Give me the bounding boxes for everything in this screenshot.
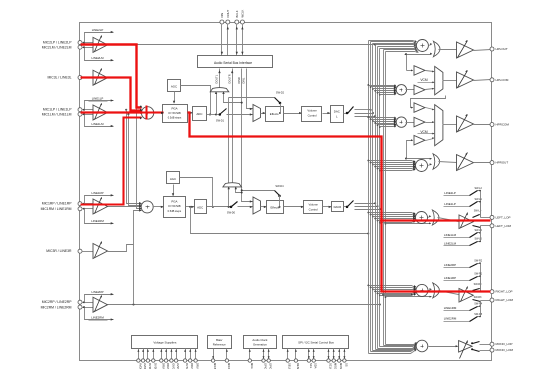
wire AGC-L sense [181, 86, 211, 115]
wire AGC-R sense [180, 178, 213, 207]
net DINL [247, 69, 253, 109]
svg-text:SW-L2: SW-L2 [474, 187, 482, 190]
svg-text:SW-L5: SW-L5 [474, 238, 482, 241]
bus taps to LEFT_LO mixer [367, 212, 369, 214]
pin LEFT_LOP [490, 215, 494, 219]
switch SW-L0 [473, 215, 480, 218]
svg-text:LINE2LP: LINE2LP [92, 28, 104, 32]
svg-text:SW-D1: SW-D1 [216, 118, 225, 122]
pin MICDET [225, 359, 228, 362]
wire PGA-R to ADC-R [186, 206, 195, 208]
combiner RIGHT_LO [433, 283, 440, 298]
wire bus tap to RIGHT_LO combiner [385, 296, 387, 298]
svg-text:SW-R1: SW-R1 [474, 272, 482, 275]
amp HPROUT [457, 155, 474, 171]
wire ADC-R tap to ADC mux R [228, 98, 230, 207]
wire bus tap to LEFT_LO combiner [385, 223, 387, 225]
tap LINE1RP [85, 196, 114, 204]
switch SW-R0 [473, 289, 480, 291]
svg-text:RESET: RESET [296, 363, 300, 369]
wire Effects-VC R [284, 206, 304, 208]
collector LEFT to pins [481, 217, 491, 219]
tap LINE1RM [85, 209, 114, 224]
block Volume Control R [304, 201, 323, 214]
block Volume Control L [302, 107, 322, 122]
svg-text:DINR: DINR [237, 77, 241, 83]
svg-text:Volume: Volume [307, 108, 317, 112]
amp HPLOUT [457, 42, 474, 58]
switch MONO P [473, 342, 480, 344]
mux DAC-in R [253, 197, 261, 214]
Audio Serial Bus Interface U1 [198, 56, 273, 68]
pin WCLK [240, 20, 244, 24]
wire MIC1L inputs [82, 109, 94, 111]
svg-text:WCLK: WCLK [241, 10, 245, 18]
svg-text:SW-D2: SW-D2 [276, 91, 285, 95]
collector RIGHT to pins [481, 291, 491, 293]
svg-text:SW-L4: SW-L4 [474, 229, 482, 232]
wire MIC1R inputs [82, 203, 94, 205]
svg-text:LINE2RP: LINE2RP [444, 263, 456, 267]
svg-text:SW-R3: SW-R3 [474, 296, 482, 299]
svg-text:LINE1RP: LINE1RP [91, 191, 103, 195]
svg-text:DIN: DIN [220, 13, 224, 18]
pin MIC3L/LINE3L [78, 76, 82, 80]
pin AVDD [141, 359, 144, 362]
svg-text:LINE1LP: LINE1LP [92, 96, 104, 100]
pin MIC1RM/LINE1RM [78, 207, 82, 211]
chip outer border [80, 23, 492, 361]
wire MIC1R amp output [108, 206, 142, 208]
wire VC-DACR [323, 206, 332, 208]
svg-text:DAC: DAC [334, 110, 340, 114]
svg-text:Voltage Supplies: Voltage Supplies [153, 340, 177, 344]
svg-text:DOUTR: DOUTR [227, 74, 231, 83]
red path MIC2L input [81, 45, 142, 108]
wire AGC-L control [174, 92, 176, 103]
pin HPLCOM [490, 78, 494, 82]
tap LINE1LP [85, 101, 114, 110]
wire mux to amp HPLCOM [443, 80, 457, 82]
tap LINE2RM [85, 308, 114, 320]
svg-text:DOUT: DOUT [226, 10, 230, 18]
pin SCL [307, 359, 310, 362]
svg-text:DRVDD2: DRVDD2 [166, 363, 170, 369]
svg-text:BCLK: BCLK [235, 10, 239, 17]
svg-text:Audio Clock: Audio Clock [252, 338, 268, 342]
svg-text:MONO_LOP: MONO_LOP [496, 342, 513, 346]
tap LINE2RP [85, 295, 114, 303]
svg-text:LINE2RM: LINE2RM [91, 315, 104, 319]
svg-text:LINE1RM: LINE1RM [444, 306, 457, 310]
mixer RIGHT_LO sum [416, 284, 428, 296]
wire mux to amp HPRCOM [443, 124, 457, 126]
svg-text:GPIO1: GPIO1 [269, 363, 273, 369]
wire MIC3R to right mixer [134, 211, 142, 305]
pin RESET [294, 359, 297, 362]
junction right mixer in [139, 206, 142, 208]
pin GPIO2 [262, 359, 265, 362]
wire ADC-R out [207, 206, 231, 208]
svg-text:0.5dB steps: 0.5dB steps [168, 115, 182, 119]
svg-text:DVSS: DVSS [185, 363, 189, 369]
pin DVDD [146, 359, 149, 362]
block Audio Clock Generation [244, 336, 277, 349]
amp LEFT_LO [459, 215, 473, 229]
amp tri T2 row3 [414, 117, 425, 127]
svg-text:Audio Serial Bus Interface: Audio Serial Bus Interface [214, 61, 252, 65]
pin HPLOUT [490, 47, 494, 51]
svg-text:DRVDD1: DRVDD1 [161, 363, 165, 369]
pin SS [343, 359, 346, 362]
svg-text:0.5dB steps: 0.5dB steps [168, 209, 182, 213]
amp MIC3L [93, 70, 108, 85]
svg-text:MIC1RP / LINE1RP: MIC1RP / LINE1RP [42, 202, 72, 206]
wire VCM link rows 1-2 [406, 55, 408, 71]
amp MIC2L [93, 37, 108, 52]
bus taps to RIGHT_LO mixer [367, 285, 369, 287]
adc-mux dome DOME-R [223, 183, 242, 187]
block SPI/I2C Serial Control Bus [283, 336, 349, 349]
pin RIGHT_LOM [490, 298, 494, 302]
wire MIC2L inputs [82, 42, 94, 44]
switch SW-D1 [219, 113, 222, 116]
svg-text:SCLK: SCLK [329, 363, 333, 369]
wire MIC3L [82, 77, 94, 79]
wire amp to HPLOUT pin [474, 50, 491, 51]
svg-text:MICBIAS: MICBIAS [213, 363, 217, 369]
mux DAC-in L [253, 105, 261, 122]
bus taps to HPROUT mixer [367, 160, 369, 162]
mixer right record MX-R [141, 201, 153, 213]
svg-text:SW-D0: SW-D0 [227, 211, 236, 215]
svg-text:MIC1RM / LINE1RM: MIC1RM / LINE1RM [41, 207, 72, 211]
red path mixer to PGA-L [153, 111, 164, 113]
svg-text:Bias/: Bias/ [216, 338, 222, 342]
svg-text:MIC2RP / LINE2RP: MIC2RP / LINE2RP [42, 300, 72, 304]
block Voltage Supplies [132, 336, 198, 349]
pga PGA-R [164, 197, 186, 218]
switch SW-L3 [473, 226, 481, 228]
block Effects L [266, 107, 284, 122]
svg-text:SPI / I2C Serial Control Bus: SPI / I2C Serial Control Bus [298, 340, 334, 344]
pin MIC1LM/LINE1LM [78, 112, 82, 116]
svg-text:LINE2LM: LINE2LM [91, 56, 104, 60]
block Bias/Reference [208, 336, 232, 349]
svg-text:DRVSS1: DRVSS1 [190, 363, 194, 369]
mixer HPRCOM sum [396, 117, 406, 127]
adc-mux dome DOME-L [210, 88, 229, 92]
agc AGC-R [167, 172, 180, 184]
wire link rows 2-3 [411, 96, 446, 108]
svg-text:SW-R5: SW-R5 [474, 313, 482, 316]
red path MIC1L input [81, 111, 143, 113]
pin MISO [332, 359, 335, 362]
svg-text:SCL: SCL [309, 363, 313, 369]
svg-text:DACR: DACR [334, 205, 342, 209]
tap LINE2LP [85, 33, 114, 43]
svg-text:Effects: Effects [271, 206, 280, 210]
amp tri T3 row3 [414, 135, 425, 145]
agc AGC-L [168, 80, 181, 92]
wire AGC-R control [173, 185, 175, 196]
switch SW-R5 [470, 317, 478, 322]
svg-text:Control: Control [309, 207, 318, 211]
pin MCLK [248, 359, 251, 362]
wire RIGHT_LO to amp [439, 291, 459, 295]
mixer left record MX-L [141, 107, 153, 119]
svg-text:AVDD: AVDD [138, 363, 142, 369]
block Effects R [267, 201, 284, 214]
switch SW-L4 [470, 233, 478, 238]
pin SCLK [327, 359, 330, 362]
svg-text:MISO: MISO [334, 363, 338, 369]
wire crossfeed MIC2L to right mixer [136, 44, 138, 46]
svg-text:AVDD: AVDD [143, 363, 147, 369]
net DOUTL [219, 69, 221, 88]
pin DVDD [152, 359, 155, 362]
wire mux to Effects L [261, 113, 266, 115]
wire ADC-L out [207, 114, 219, 116]
pin MIC2RM/LINE2RM [78, 305, 82, 309]
red arrows into left mixer [140, 105, 143, 107]
pin HPROUT [490, 161, 494, 165]
svg-text:LINE1RM: LINE1RM [91, 219, 104, 223]
wire MX-L to PGA-L [154, 112, 163, 114]
svg-text:MONO_LOM: MONO_LOM [496, 348, 514, 352]
wire Effects-VC L [284, 113, 302, 115]
wire amp to HPLCOM pin [474, 80, 491, 81]
wire link rows 3-4 [407, 141, 413, 159]
switch DAC-L out [344, 113, 348, 115]
amp MONO [459, 341, 473, 353]
pin MIC2LP/LINE2LP [78, 41, 82, 45]
svg-text:Reference: Reference [213, 342, 226, 346]
amp MIC1L [93, 105, 108, 120]
wire MIC2R amp output to bus [108, 304, 380, 306]
net DINR [242, 69, 253, 202]
switch SW-D4 [242, 190, 275, 192]
red path branch to RIGHT_LOP [382, 221, 491, 292]
pin MIC2RP/LINE2RP [78, 300, 82, 304]
svg-text:PGA: PGA [171, 106, 177, 110]
switch SW-D2 [229, 97, 275, 99]
amp RIGHT_LO [459, 289, 473, 303]
amp HPRCOM [457, 116, 474, 132]
wire DACR to bus [355, 203, 376, 205]
svg-text:SDA: SDA [314, 363, 318, 369]
junction on red at LEFT_LO tap [380, 223, 382, 225]
wire amp to HPRCOM pin [474, 124, 491, 126]
wire DAC-L to bus [355, 109, 371, 111]
pin DIN [220, 20, 224, 24]
svg-text:MIC3L / LINE3L: MIC3L / LINE3L [48, 76, 72, 80]
mux HPRCOM [426, 108, 434, 110]
svg-text:AGC: AGC [170, 177, 176, 181]
mixer MONO sum [416, 340, 428, 352]
wire MX-R to PGA-R [153, 206, 164, 208]
pga PGA-L [163, 105, 188, 123]
amp tri T1 row3 [414, 103, 425, 113]
combiner HPLOUT [429, 45, 432, 46]
svg-text:Generation: Generation [253, 342, 267, 346]
bus top corners into HPLOUT mixer [369, 41, 417, 42]
svg-text:SELECT: SELECT [288, 363, 292, 369]
svg-text:LINE1LM: LINE1LM [444, 233, 457, 237]
mixer HPLOUT sum [416, 40, 428, 52]
wire VC-DAC L [323, 113, 331, 115]
amp MIC1R [93, 199, 108, 214]
wire PGA-R bypass to bus [189, 206, 191, 208]
dac DAC L [331, 106, 344, 123]
pin DRVDD1 [160, 359, 163, 362]
svg-text:DVDD: DVDD [153, 363, 157, 369]
svg-text:MIC2RM / LINE2RM: MIC2RM / LINE2RM [41, 305, 72, 309]
svg-text:DINL: DINL [242, 77, 246, 83]
wire MIC2R inputs [82, 302, 94, 304]
svg-text:ADC: ADC [196, 112, 202, 116]
bus taps to HPRCOM mixer [367, 116, 369, 118]
wire SW-D1 to DAC mux L [227, 114, 253, 116]
wire DINR loopback to DOME-L [224, 93, 242, 103]
pin MIC3R/LINE3R [78, 249, 82, 253]
svg-text:HPRCOM: HPRCOM [496, 123, 510, 127]
svg-text:LINE2LM: LINE2LM [444, 242, 457, 246]
svg-text:SW-R4: SW-R4 [474, 302, 482, 305]
wire amp to HPROUT pin [474, 162, 491, 164]
net DOUTR [232, 69, 234, 183]
mixer HPROUT sum [416, 160, 428, 172]
pin MICBIAS [211, 359, 214, 362]
combiner LEFT_LO [432, 210, 439, 225]
wire crossfeed LINE1LM to right mixer [127, 113, 129, 115]
wire MIC3R jog to crossfeed [108, 245, 134, 252]
pin SELECT [286, 359, 289, 362]
svg-text:DVDD: DVDD [148, 363, 152, 369]
svg-text:HPLCOM: HPLCOM [496, 78, 509, 82]
pin MONO_LOM [490, 348, 494, 352]
red path branch to LEFT_LOP [382, 219, 491, 221]
svg-text:LINE1RP: LINE1RP [444, 276, 456, 280]
mixer HPLCOM sum [396, 85, 406, 95]
svg-text:HPROUT: HPROUT [496, 161, 509, 165]
svg-text:MIC1LM / LINE1LM: MIC1LM / LINE1LM [42, 112, 72, 116]
svg-text:LEFT_LOP: LEFT_LOP [496, 215, 511, 219]
pin MOSI [338, 359, 341, 362]
dac DACR [332, 202, 344, 212]
svg-text:RIGHT_LOP: RIGHT_LOP [496, 290, 513, 294]
svg-text:LINE1LP: LINE1LP [444, 202, 456, 206]
svg-text:Effects: Effects [270, 112, 279, 116]
svg-text:RIGHT_LOM: RIGHT_LOM [496, 298, 514, 302]
wire mux to Effects R [261, 206, 267, 208]
amp MIC3R [93, 244, 108, 259]
svg-text:0=>59.5dB: 0=>59.5dB [168, 111, 181, 115]
wire HPLOUT to amp [439, 49, 457, 51]
svg-text:SW-D4: SW-D4 [275, 184, 284, 188]
pin DVSS [183, 359, 186, 362]
svg-text:LEFT_LOM: LEFT_LOM [496, 224, 512, 228]
svg-text:GPIO2: GPIO2 [264, 363, 268, 369]
red path MIC3L input [81, 78, 142, 111]
pin HPRCOM [490, 123, 494, 127]
svg-text:PGA: PGA [171, 199, 177, 203]
tap LINE1LM [85, 115, 114, 127]
wire LEFT_LO to amp [438, 218, 459, 222]
svg-text:MIC2LP / LINE2LP: MIC2LP / LINE2LP [43, 41, 72, 45]
wire MIC2L amp output to bus [108, 44, 376, 46]
mux HPLCOM [426, 71, 434, 72]
red path PGA-L bypass to line outputs [188, 113, 382, 221]
switch SW-R2 [470, 264, 478, 268]
svg-text:MOSI: MOSI [339, 363, 343, 369]
svg-text:AGC: AGC [171, 84, 177, 88]
pin AVDD [137, 359, 140, 362]
wire SW-D0 to DAC mux R [238, 206, 253, 208]
mixer LEFT_LO sum [416, 212, 428, 224]
pin MIC1RP/LINE1RP [78, 202, 82, 206]
pin MIC1LP/LINE1LP [78, 108, 82, 112]
wire PGA-L to ADC-L [188, 112, 193, 114]
wire sum to T2 [406, 89, 415, 91]
switch SW-D0 [230, 206, 233, 209]
pin BCLK [235, 20, 239, 24]
wire MIC3R [82, 251, 94, 253]
wire HPROUT to amp [439, 162, 457, 163]
combiner HPROUT [428, 165, 432, 166]
pin IOVDD [170, 359, 173, 362]
pin DOUT [226, 20, 230, 24]
red plus on left mixer [146, 106, 148, 120]
pin MIC2LM/LINE2LM [78, 45, 82, 49]
pin DRVDD2 [164, 359, 167, 362]
pin GPIO1 [267, 359, 270, 362]
adc ADC-L [193, 107, 207, 121]
red path MIC1R input [81, 118, 142, 205]
pin DRVSS1 [189, 359, 192, 362]
svg-text:VCM: VCM [420, 78, 428, 82]
svg-text:SS: SS [344, 363, 348, 367]
svg-text:MIC1LP / LINE1LP: MIC1LP / LINE1LP [43, 108, 72, 112]
wire DINR loopback to DOME-R [236, 188, 242, 193]
svg-text:AVSS: AVSS [176, 363, 180, 369]
switch SW-L2 [470, 191, 478, 196]
svg-text:SW-L1: SW-L1 [474, 198, 482, 201]
svg-text:LINE2LP: LINE2LP [444, 191, 456, 195]
pin RIGHT_LOP [490, 290, 494, 294]
pin SDA [312, 359, 315, 362]
amp MIC2R [93, 297, 108, 312]
pin MONO_LOP [490, 342, 494, 346]
svg-text:DRVSS2: DRVSS2 [196, 363, 200, 369]
switch SW-L1 [470, 202, 478, 207]
svg-text:LINE1LM: LINE1LM [91, 122, 104, 126]
bus bottom corners into MONO mixer [369, 350, 417, 354]
svg-text:MIC2LM / LINE2LM: MIC2LM / LINE2LM [42, 45, 72, 49]
switch DACR out [344, 206, 348, 208]
amp tri T2 row2 [414, 85, 425, 95]
pin LEFT_LOM [490, 224, 494, 228]
switch SW-R1 [470, 277, 478, 281]
svg-text:Control: Control [308, 113, 317, 117]
svg-text:ADC: ADC [197, 206, 203, 210]
wire crossfeed LINE1LP to right mixer [125, 109, 127, 111]
svg-text:MICDET: MICDET [227, 363, 231, 369]
tap LINE2LM [85, 48, 114, 61]
wire bus tap to RIGHT_LO circle [382, 294, 384, 296]
svg-text:0=>59.5dB: 0=>59.5dB [168, 204, 181, 208]
svg-text:SW-R2: SW-R2 [474, 259, 482, 262]
